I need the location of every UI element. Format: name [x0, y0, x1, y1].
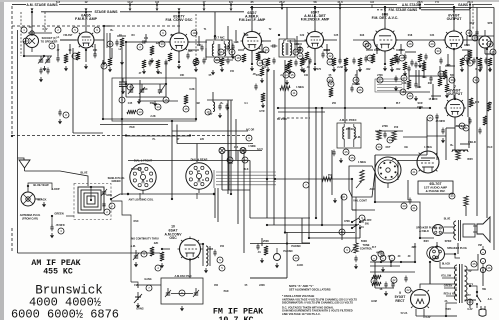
junction [178, 61, 180, 63]
svg-text:PAD: PAD [224, 290, 229, 293]
svg-text:455 KC: 455 KC [346, 128, 355, 131]
capacitor C10 grid [141, 40, 148, 43]
svg-text:+: + [373, 256, 375, 260]
svg-text:A.C.: A.C. [488, 298, 493, 301]
junction [384, 107, 386, 109]
wire V5 bottom [384, 51, 386, 64]
svg-text:4: 4 [157, 266, 159, 270]
wire V7 top [454, 95, 456, 99]
svg-text:PHONO: PHONO [283, 250, 292, 253]
wire bus drop arrow [178, 8, 181, 11]
callout 17 [101, 63, 107, 69]
svg-text:29: 29 [430, 42, 434, 46]
capacitor C12 V2 [186, 53, 189, 60]
wire disc x440 [439, 66, 441, 78]
wire stage gains bus low left [41, 11, 92, 13]
junction [284, 231, 286, 233]
socket speaker plug upper [433, 225, 444, 236]
junction [110, 198, 112, 200]
junction [227, 107, 229, 109]
wire V1 grid [60, 39, 76, 41]
svg-text:2: 2 [139, 45, 141, 49]
wire v2 osc drop [165, 62, 167, 84]
callout 2 [104, 209, 110, 215]
wire x172 col [171, 121, 173, 199]
capacitor right col a [472, 58, 475, 65]
wire stair y137 [403, 136, 427, 138]
resistor under tube x144 [142, 60, 146, 68]
wire vertical [261, 44, 263, 53]
svg-text:B+: B+ [110, 29, 114, 32]
callout 14 [293, 255, 299, 261]
svg-text:18: 18 [206, 110, 210, 114]
socket gang view rear [186, 158, 212, 194]
wire vertical [356, 70, 358, 85]
wire y243 bus [250, 243, 310, 245]
capacitor under tube x340 [338, 58, 341, 65]
junction [230, 193, 232, 195]
wire L6 bus [207, 99, 233, 101]
junction [454, 253, 456, 255]
svg-text:.002: .002 [396, 68, 401, 71]
wire out y136 [427, 135, 446, 137]
callout ac [246, 135, 252, 141]
wire horizontal [238, 49, 244, 51]
callout 4 [49, 43, 55, 49]
capacitor C33a [407, 66, 410, 73]
callout 26 [357, 87, 363, 93]
svg-text:8MF: 8MF [412, 246, 417, 249]
wire loop to gang [111, 201, 131, 282]
wire gain tick [203, 5, 205, 9]
svg-text:47: 47 [139, 72, 142, 75]
wire horizontal [445, 65, 455, 67]
wire horizontal [126, 41, 140, 43]
callout 9 [359, 215, 365, 221]
wire dial lamp run [222, 189, 250, 191]
svg-text:+: + [482, 250, 484, 254]
callout 46 [63, 112, 69, 118]
trimmer capacitor FM osc B [139, 84, 145, 94]
callout extra 2 [55, 27, 61, 33]
svg-text:4.6: 4.6 [370, 0, 374, 4]
junction [178, 11, 180, 13]
plug AC line [479, 306, 486, 316]
callout 29 [399, 55, 405, 61]
ground under tube x490 [488, 67, 492, 72]
inductor L6 B+ choke [213, 102, 215, 112]
wire plug to loop [28, 183, 52, 190]
capacitor C20 [298, 46, 301, 53]
junction [419, 3, 421, 5]
svg-text:22: 22 [392, 278, 396, 282]
svg-text:20: 20 [398, 255, 401, 258]
svg-text:10: 10 [340, 230, 344, 234]
callout 28 [400, 89, 406, 95]
wire horizontal [126, 135, 190, 137]
svg-text:470: 470 [317, 68, 322, 71]
wire socket drop [31, 12, 33, 35]
svg-text:18: 18 [236, 56, 240, 60]
ground R30 [160, 263, 164, 268]
wire x197 drop [196, 144, 198, 163]
wire osc trimmer bus [126, 83, 166, 85]
junction [321, 107, 323, 109]
socket speaker plug ring [427, 247, 439, 259]
capacitor loop pad [102, 202, 105, 209]
ground t2e [302, 68, 306, 73]
junction [286, 242, 288, 244]
wire ps y288L [375, 287, 394, 289]
resistor R23 [483, 116, 487, 125]
wire vertical [228, 150, 230, 190]
callout 21 [297, 47, 303, 53]
wire gain tick [230, 5, 232, 9]
resistor R12 [305, 52, 309, 60]
callout 22 [405, 287, 411, 293]
wire dashed divider x196 [195, 14, 197, 60]
wire stair y112 [278, 111, 325, 113]
wire T1 to bus [214, 12, 216, 40]
svg-text:16: 16 [219, 50, 223, 54]
svg-text:BLUE-YELW: BLUE-YELW [33, 183, 49, 187]
wire x228 col2 [227, 100, 229, 194]
capacitor C15b [226, 45, 229, 52]
wire horizontal [125, 42, 127, 84]
wire x267 long [266, 70, 268, 218]
trimmer capacitor FM osc C [158, 84, 165, 94]
wire bus drop arrow [31, 8, 34, 11]
ground psu caps [384, 291, 388, 296]
wire vertical [376, 44, 378, 54]
wire horizontal [366, 49, 373, 51]
wire tone feed [355, 225, 357, 243]
svg-text:& PHASE INV.: & PHASE INV. [426, 189, 446, 193]
resistor avc [261, 93, 265, 102]
wire gain tick [371, 5, 373, 9]
junction [125, 41, 127, 43]
wire loop link diag [111, 194, 128, 199]
wire bus drop arrow [314, 7, 317, 10]
svg-text:35: 35 [428, 116, 432, 120]
callout extra 29 [429, 41, 435, 47]
svg-text:37: 37 [388, 138, 392, 142]
junction [278, 34, 280, 36]
wire plate link 4 [323, 39, 337, 41]
wire y179 avc to vol [275, 178, 352, 180]
callout 6 [160, 30, 166, 36]
resistor tone element [354, 243, 358, 253]
svg-text:14: 14 [156, 105, 160, 109]
wire xfmr lead 3 [444, 287, 457, 289]
svg-text:18: 18 [379, 252, 383, 256]
junction drum left [127, 193, 129, 195]
capacitor C32 [394, 76, 397, 83]
svg-text:17: 17 [230, 50, 234, 54]
wire vertical [397, 160, 399, 180]
wire x250 heater [249, 161, 251, 219]
ground V1 cathode [84, 64, 88, 69]
junction [384, 63, 386, 65]
ground under tube x334 [332, 67, 336, 72]
wire ant input [23, 41, 25, 56]
svg-text:PM: PM [478, 244, 482, 247]
resistor under tube x268 [266, 58, 270, 66]
wire vertical [436, 117, 438, 136]
svg-text:20: 20 [298, 54, 302, 58]
wire vertical [315, 108, 317, 218]
wire plate link 2 [261, 40, 271, 42]
resistor R51 [372, 282, 381, 286]
wire horizontal [485, 53, 494, 55]
wire tube pin stubs [181, 240, 199, 258]
ground tone [354, 264, 358, 269]
wire horizontal [117, 35, 126, 37]
resistor R12b [260, 68, 264, 76]
junction [277, 107, 279, 109]
callout 32 [464, 55, 470, 61]
svg-text:SPEAKER PLUG: SPEAKER PLUG [447, 247, 467, 250]
svg-text:6.8K: 6.8K [401, 82, 406, 85]
inductor field coil [452, 150, 468, 152]
wire stair audio [375, 202, 434, 238]
wire stage gains bus low right [120, 11, 244, 13]
svg-text:8: 8 [343, 195, 345, 199]
capacitor under tube x412 [410, 60, 413, 67]
svg-text:500: 500 [450, 74, 455, 77]
svg-text:470K: 470K [344, 220, 350, 223]
svg-text:A.M.OSC PAD: A.M.OSC PAD [174, 274, 191, 278]
junction [414, 261, 416, 263]
svg-text:.01: .01 [257, 251, 261, 254]
resistor R5 grid leak [150, 46, 154, 55]
capacitor C24 [321, 52, 324, 59]
svg-text:HTR: HTR [260, 110, 265, 113]
svg-text:5: 5 [221, 266, 223, 270]
wire y150 dial [225, 150, 262, 152]
capacitor gang pad B [46, 68, 49, 75]
svg-text:OSC: OSC [169, 236, 177, 240]
callout 14 [155, 104, 161, 110]
callout 59 [467, 299, 473, 305]
capacitor multi-plate C44 [119, 78, 127, 89]
wire heater gap [92, 252, 128, 254]
wire horizontal [375, 261, 381, 263]
svg-text:25: 25 [472, 262, 476, 266]
socket gang view front [130, 159, 156, 195]
junction [469, 3, 471, 5]
junction [195, 118, 197, 120]
capacitor under tube x204 [202, 58, 205, 65]
tube V5 6H6 FM det AVC [372, 9, 399, 53]
inductor L2 FM interstage [104, 33, 110, 48]
capacitor C30 [403, 54, 406, 61]
svg-text:8: 8 [65, 113, 67, 117]
wire vertical [407, 180, 409, 200]
svg-text:BLUE: BLUE [80, 171, 87, 175]
svg-text:C22: C22 [300, 34, 305, 37]
wire gain tick [156, 5, 158, 9]
capacitor C60 [408, 198, 411, 205]
wire x73 drop [72, 48, 74, 133]
wire T4 up [344, 60, 346, 123]
resistor R2 V1 cathode [76, 52, 80, 60]
junction [171, 120, 173, 122]
resistor R18 discriminator [407, 80, 411, 89]
wire out x437b [436, 136, 438, 160]
potentiometer tone control [351, 243, 358, 253]
wire horizontal [188, 49, 199, 51]
wire vertical [57, 44, 59, 56]
junction [189, 134, 191, 136]
callout 41 [227, 157, 233, 163]
svg-text:SPK: SPK [488, 22, 493, 25]
capacitor C33b [414, 62, 417, 69]
wire psu y266 [370, 265, 400, 267]
svg-text:56K: 56K [150, 102, 155, 105]
svg-text:40: 40 [29, 26, 32, 29]
svg-text:22K: 22K [154, 242, 159, 245]
svg-text:6: 6 [162, 31, 164, 35]
capacitor C37a [468, 118, 471, 125]
svg-text:9: 9 [96, 28, 98, 32]
wire osc trimmer bot [126, 96, 166, 98]
trimmer capacitor loop [101, 188, 107, 196]
wire vertical [198, 36, 200, 46]
svg-text:100: 100 [304, 74, 309, 77]
svg-text:05: 05 [245, 284, 248, 287]
wire V3 top [251, 7, 253, 31]
ground under tube x462 [460, 67, 464, 72]
wire vertical [69, 44, 71, 54]
wire out x469 [468, 117, 470, 148]
ground T4 [339, 158, 343, 163]
junction [203, 3, 205, 5]
junction [214, 35, 216, 37]
svg-text:14: 14 [294, 256, 298, 260]
svg-text:32: 32 [474, 78, 478, 82]
svg-text:6.3 V: 6.3 V [257, 148, 263, 151]
ground disc [414, 96, 418, 101]
ground elec [381, 267, 385, 272]
svg-text:350V: 350V [467, 158, 473, 161]
wire dashed x473 [472, 5, 474, 30]
svg-text:31: 31 [450, 78, 454, 82]
wire V5 top [384, 7, 386, 29]
junction [314, 6, 316, 8]
svg-text:VOL CONT: VOL CONT [353, 199, 367, 203]
wire ps x430 [429, 262, 431, 284]
svg-text:27: 27 [368, 56, 372, 60]
wire x340 drop [339, 5, 341, 61]
wire V2 grid line [140, 41, 170, 43]
wire horizontal [409, 75, 424, 77]
wire disc y76 [409, 75, 447, 77]
capacitor C7 [115, 40, 118, 47]
wire vertical [351, 179, 353, 210]
wire tube pin stubs [419, 153, 438, 172]
callout 58 [391, 277, 397, 283]
callout L6 [205, 109, 211, 115]
callout 50 [141, 251, 147, 257]
wire stair y155 [375, 154, 427, 156]
capacitor under tube x366 [364, 56, 367, 63]
wire AM stage gains bus left [12, 4, 26, 6]
junction [453, 6, 455, 8]
wire vertical [221, 153, 223, 190]
wire horizontal [405, 51, 416, 53]
wire y278 [250, 277, 287, 279]
callout 58b [371, 278, 377, 284]
capacitor electrolytic C75 [480, 258, 485, 267]
wire plug to xfmr [445, 254, 461, 258]
capacitor C26 [332, 150, 335, 157]
wire elec right stem [482, 267, 484, 286]
ground V7 bottom [441, 138, 445, 143]
wire V2 below [178, 51, 180, 62]
wire vertical [286, 232, 288, 243]
callout 54 [341, 194, 347, 200]
svg-text:40: 40 [408, 255, 411, 258]
callout 42 [242, 157, 248, 163]
capacitor electrolytic C74 [480, 246, 485, 255]
wire V6 top [453, 7, 455, 31]
wire plug to xfmr top [444, 226, 456, 228]
ground inner box [153, 101, 157, 106]
oscillator padder network box [161, 278, 203, 304]
wire vertical [261, 238, 263, 246]
svg-text:2: 2 [57, 28, 59, 32]
callout t2a [283, 72, 289, 78]
svg-text:30: 30 [436, 49, 440, 53]
wire tube pin stubs [411, 290, 429, 308]
resistor under tube x405 [403, 62, 407, 70]
wire horizontal [259, 51, 266, 53]
wire vertical [414, 243, 416, 262]
callout 53 [146, 285, 152, 291]
transformer output box [463, 224, 475, 237]
svg-text:23: 23 [372, 279, 376, 283]
wire horizontal [215, 59, 233, 61]
wire y218 [250, 217, 310, 219]
wire vertical [374, 155, 376, 202]
ground under tube x346 [344, 67, 348, 72]
chassis box oscillator section [112, 78, 196, 121]
wire rt y54 [485, 53, 494, 55]
switch on-off on volume control [351, 218, 361, 229]
wire vertical [326, 44, 328, 54]
capacitor under tube x426 [424, 54, 427, 61]
svg-text:2: 2 [106, 210, 108, 214]
wire AM stage gains bus right end [472, 4, 492, 6]
junction [476, 291, 478, 293]
svg-text:5V: 5V [468, 270, 471, 273]
wire stair y160 [398, 160, 430, 162]
svg-text:LOOP: LOOP [52, 188, 59, 191]
tube V8 6SR7 audio triode [417, 151, 439, 173]
wire gain tick [281, 5, 283, 9]
junction [266, 224, 268, 226]
transformer T4 AM IF 455KC [337, 123, 361, 148]
note dc voltages [282, 305, 353, 315]
wire x110 drop [109, 48, 111, 58]
lamp dial light [219, 148, 225, 154]
wire AM stage gains bus right2 [424, 4, 454, 6]
ground disc2 [445, 93, 449, 98]
inductor L5 choke [228, 40, 230, 49]
wire horizontal [446, 127, 455, 129]
capacitor under tube x296 [294, 60, 297, 67]
